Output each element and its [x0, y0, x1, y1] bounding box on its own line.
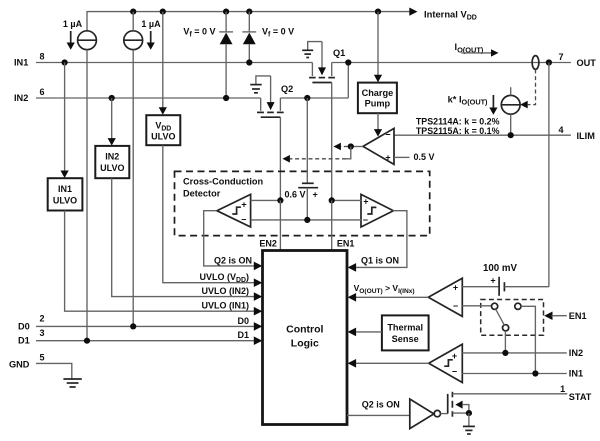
pin D0 (2) and wire [18, 314, 262, 332]
svg-text:+: + [490, 276, 495, 286]
svg-text:−: − [385, 130, 390, 140]
svg-text:+: + [453, 283, 458, 293]
svg-text:Detector: Detector [183, 188, 221, 198]
svg-text:Pump: Pump [365, 99, 391, 109]
wire: dashed arrow to Q1 gate [333, 143, 348, 151]
svg-text:Control: Control [286, 324, 323, 336]
wire: EN2 plus input and node [251, 197, 284, 203]
svg-text:IN1: IN1 [14, 58, 28, 68]
svg-text:EN1: EN1 [337, 239, 355, 249]
wire: STAT line [452, 393, 567, 395]
svg-text:Cross-Conduction: Cross-Conduction [183, 176, 264, 186]
wire: dashed arrow to Q2 gate [282, 147, 350, 163]
battery 100 mV [462, 263, 549, 296]
svg-text:D1: D1 [18, 336, 30, 346]
thermal sense block [382, 315, 429, 350]
diode D_B (Vf = 0 V, to IN1) [242, 12, 256, 63]
wire: switch to IN1 sense [521, 306, 536, 373]
svg-text:STAT: STAT [569, 392, 592, 402]
wire: OUT feedback down right side [548, 63, 550, 287]
op-amp: IN2/IN1 schmitt comparator [429, 344, 463, 382]
wire: IN1 line right side [462, 369, 583, 379]
wire: ILIM line [394, 132, 571, 138]
current sense ellipse on OUT [532, 56, 539, 70]
ULVO block IN2 [95, 98, 129, 178]
ULVO block VDD [146, 12, 180, 146]
svg-text:EN2: EN2 [259, 239, 277, 249]
pin GND (5) [9, 353, 72, 379]
label + arrow: 1 uA (right source) [141, 19, 161, 50]
svg-text:+: + [241, 199, 246, 209]
wire: Q2 drain to OUT riser [280, 63, 348, 102]
switch contacts and arm [462, 303, 521, 331]
current source k*IO(OUT) [501, 87, 520, 135]
svg-text:EN1: EN1 [569, 311, 587, 321]
svg-text:+: + [385, 153, 390, 163]
ULVO block IN1 [48, 63, 83, 211]
svg-text:Thermal: Thermal [387, 322, 423, 332]
svg-text:5: 5 [39, 353, 44, 363]
wire: left schmitt output (Q2 is ON) [204, 211, 263, 271]
pin ILIM (4) [558, 125, 595, 141]
svg-text:D0: D0 [237, 316, 249, 326]
svg-text:Q1: Q1 [333, 48, 345, 58]
pin EN1 arrow [544, 311, 586, 321]
label + arrow: 1 uA (left source) [63, 19, 83, 50]
wire: VO comparator output to control logic [348, 283, 429, 302]
svg-text:ULVO: ULVO [53, 195, 77, 205]
label: 0.5 V with input stub [394, 152, 435, 162]
wire: I2 output down to D0 net [132, 50, 134, 327]
wire: UVLO(IN1) input [65, 211, 263, 316]
svg-text:−: − [363, 215, 368, 225]
pin D1 (3) and wire [18, 328, 262, 346]
pin STAT (1) [560, 384, 592, 402]
label + arrow: k* IO(OUT) [448, 95, 498, 115]
svg-text:Q2 is ON: Q2 is ON [214, 255, 252, 265]
wire: right schmitt output (Q1 is ON) [348, 211, 407, 272]
wire: 0.6V to comparator minus inputs [251, 217, 362, 223]
svg-text:1: 1 [560, 384, 565, 394]
wire: Q1 gate to EN1 node [331, 83, 333, 201]
wire: IN1 line [36, 59, 312, 65]
wire: UVLO(IN2) input [112, 178, 263, 301]
svg-text:6: 6 [39, 87, 44, 97]
svg-text:Logic: Logic [291, 338, 319, 350]
pin OUT (7) [558, 52, 596, 68]
op-amp: current limit comparator [363, 128, 394, 164]
pin IN1 (8) [14, 52, 45, 68]
wire: EN1 plus input and node [329, 197, 362, 203]
svg-text:100 mV: 100 mV [483, 263, 517, 274]
svg-text:1 µA: 1 µA [141, 19, 161, 29]
wire: Internal VDD top rail [87, 12, 410, 31]
op-amp: left schmitt comparator (EN2) [217, 194, 251, 227]
label: IO(OUT) with arrow [455, 42, 499, 56]
wire: IN comparator output to control logic [348, 359, 429, 368]
svg-text:IN1: IN1 [569, 369, 583, 379]
pin IN2 (6) [14, 87, 45, 103]
svg-text:IN2: IN2 [14, 93, 28, 103]
svg-text:−: − [453, 301, 458, 311]
cross-conduction detector dashed box [175, 171, 430, 235]
svg-text:Q2 is ON: Q2 is ON [362, 399, 400, 409]
wire: switch to IN2 sense [504, 331, 506, 353]
ground (Q1 body) [302, 42, 322, 58]
switch dashed box [481, 300, 544, 336]
wire: OUT line [332, 59, 571, 65]
wire: UVLO(VDD) input [163, 145, 262, 287]
svg-text:+: + [363, 197, 368, 207]
svg-text:Q2: Q2 [281, 84, 293, 94]
wire: charge pump to comparator [374, 113, 382, 136]
diode D_A (Vf = 0 V, to IN2) [219, 12, 233, 98]
wire: thermal sense to control logic [348, 328, 382, 337]
wire: Q2 is ON output row [347, 399, 410, 415]
svg-text:IN1: IN1 [58, 184, 72, 194]
transistor Q_stat (open drain) [441, 392, 473, 417]
label: Q1 [333, 48, 345, 58]
svg-text:0.6 V: 0.6 V [284, 190, 305, 200]
svg-text:TPS2115A: k = 0.1%: TPS2115A: k = 0.1% [416, 126, 500, 136]
label: TPS2114A k values [416, 117, 500, 136]
transistor Q1 [309, 42, 335, 83]
svg-text:Sense: Sense [392, 334, 419, 344]
control logic block [263, 251, 348, 425]
ground (Q2 body) [250, 76, 270, 93]
svg-text:Q1 is ON: Q1 is ON [361, 255, 399, 265]
op-amp: VO(OUT) > VI(INx) comparator [428, 278, 462, 316]
svg-text:D1: D1 [237, 330, 249, 340]
svg-text:ULVO: ULVO [151, 132, 175, 142]
svg-text:1 µA: 1 µA [63, 19, 83, 29]
ground (GND pin) [63, 379, 81, 387]
svg-text:ILIM: ILIM [577, 131, 596, 141]
svg-text:−: − [452, 366, 457, 376]
wire: EN1 down to control logic [332, 200, 355, 250]
svg-text:3: 3 [39, 328, 44, 338]
label: Vf = 0 V (right) [262, 27, 294, 39]
wire: EN2 down to control logic [259, 200, 280, 250]
svg-text:7: 7 [558, 52, 563, 62]
svg-text:UVLO (IN1): UVLO (IN1) [201, 301, 249, 311]
arrow + label: Internal VDD [409, 8, 477, 22]
wire: I1 output down to D1 net [86, 63, 88, 341]
svg-text:IN2: IN2 [569, 348, 583, 358]
transistor Q2 [257, 76, 284, 117]
node: top rail junctions [130, 9, 381, 15]
current source I2 (1 uA) [124, 12, 143, 50]
svg-text:UVLO (IN2): UVLO (IN2) [201, 286, 249, 296]
wire: IN2 line [36, 95, 261, 101]
svg-text:0.5 V: 0.5 V [414, 152, 435, 162]
op-amp: right schmitt comparator (EN1) [361, 194, 393, 227]
svg-text:8: 8 [39, 52, 44, 62]
svg-text:+: + [313, 190, 318, 200]
svg-text:D0: D0 [18, 321, 30, 331]
wire: comparator output node [348, 143, 363, 149]
svg-text:ULVO: ULVO [100, 163, 124, 173]
inverter buffer [410, 399, 441, 429]
svg-text:2: 2 [39, 314, 44, 324]
wire: Q2 gate to EN2 node [279, 117, 281, 200]
svg-text:−: − [241, 215, 246, 225]
wire: IN2 line right side [462, 348, 583, 358]
svg-text:GND: GND [9, 359, 30, 369]
ground (STAT transistor) [463, 413, 475, 434]
label: Vf = 0 V (left) [183, 27, 215, 39]
svg-text:IN2: IN2 [105, 151, 119, 161]
svg-text:4: 4 [558, 125, 563, 135]
svg-text:Charge: Charge [362, 88, 394, 98]
charge pump U_cp [358, 12, 397, 114]
current source I1 (1 uA) [78, 31, 97, 63]
wire: OUT sense dashed to k source [520, 69, 535, 108]
svg-text:OUT: OUT [577, 58, 597, 68]
label: Q2 [281, 84, 293, 94]
battery 0.6 V reference [284, 98, 318, 220]
